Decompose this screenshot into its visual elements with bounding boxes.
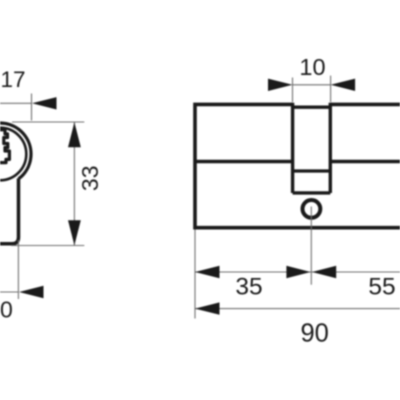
screw hole bbox=[303, 200, 321, 218]
dim 33 top extension line bbox=[12, 121, 84, 123]
body rectangle top-left segment bbox=[195, 104, 400, 227]
dim 17 line bbox=[0, 102, 32, 104]
dim 33 line bbox=[73, 122, 75, 246]
dim 35 right arrow bbox=[286, 266, 310, 278]
dim 10 left arrow bbox=[268, 79, 293, 91]
cam slot left edge bbox=[291, 103, 294, 193]
cam slot bottom bbox=[293, 191, 331, 194]
svg-text:0: 0 bbox=[0, 297, 13, 323]
body lower outline bbox=[0, 179, 19, 244]
dim 10 right arrow bbox=[331, 79, 356, 91]
dim 10 right extension line bbox=[330, 76, 332, 102]
dim 10 bottom extension line bbox=[17, 240, 19, 299]
body mid line right bbox=[331, 160, 400, 163]
cam slot top line (recessed) bbox=[293, 105, 331, 108]
dim 10 line bbox=[293, 84, 331, 86]
dim 10 bottom arrow bbox=[19, 286, 44, 298]
dim 90 line bbox=[195, 308, 400, 310]
svg-text:55: 55 bbox=[368, 273, 395, 300]
outer body circle arc bbox=[0, 123, 31, 179]
dim 33 bottom extension line bbox=[11, 245, 84, 247]
dim 33 arrow up bbox=[68, 122, 81, 147]
keyway profile bbox=[0, 130, 9, 163]
body mid line left bbox=[195, 160, 293, 163]
body top-right segment bbox=[330, 103, 400, 107]
svg-text:33: 33 bbox=[77, 166, 103, 192]
left extension line below body bbox=[194, 230, 196, 319]
svg-text:90: 90 bbox=[301, 320, 329, 348]
dim 55 left arrow bbox=[312, 266, 336, 278]
svg-text:10: 10 bbox=[299, 54, 325, 80]
dim 17 arrow bbox=[32, 97, 57, 109]
dim 90 arrow bbox=[195, 302, 220, 314]
svg-text:17: 17 bbox=[1, 67, 26, 92]
dim 17 extension line bbox=[31, 94, 33, 121]
dim 10 left extension line bbox=[292, 78, 294, 103]
svg-text:35: 35 bbox=[235, 274, 262, 301]
cam slot inner line bbox=[293, 169, 331, 172]
dim 33 arrow down bbox=[68, 220, 81, 245]
dim 35-55 line bbox=[195, 271, 400, 273]
center extension line bbox=[310, 207, 312, 285]
dim 35 left arrow bbox=[195, 266, 220, 278]
dim 10 bottom line bbox=[0, 291, 18, 293]
inner circle (plug face) bbox=[0, 128, 26, 181]
cam slot right edge bbox=[329, 103, 332, 193]
